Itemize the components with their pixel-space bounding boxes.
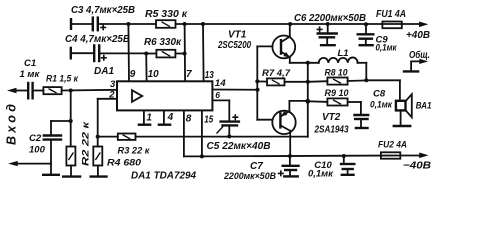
resistor R5 330k bbox=[145, 9, 188, 28]
ground (C8) bbox=[356, 127, 368, 129]
capacitor C2 bbox=[29, 133, 61, 164]
capacitor C9 bbox=[358, 24, 398, 53]
wire C4 to node 10 bbox=[71, 52, 146, 54]
wire input arrow (signal) bbox=[7, 88, 27, 93]
pin number 15 bbox=[204, 115, 213, 126]
node F (C9 top) bbox=[364, 22, 368, 26]
svg-text:DA1: DA1 bbox=[94, 66, 114, 77]
svg-text:6: 6 bbox=[215, 90, 220, 100]
svg-text:−40В: −40В bbox=[403, 161, 431, 172]
pin number 3 bbox=[110, 79, 116, 90]
pin number 13 bbox=[205, 70, 214, 81]
wire pin7 vertical bbox=[184, 24, 187, 81]
wire -40V arrow bbox=[403, 153, 431, 172]
node S (L1/R8 to output) bbox=[364, 78, 368, 82]
svg-text:2SC5200: 2SC5200 bbox=[217, 40, 251, 51]
svg-text:3: 3 bbox=[110, 79, 116, 90]
svg-text:7: 7 bbox=[186, 69, 192, 80]
wire +40V arrow bbox=[406, 22, 430, 42]
node Q (R7/R8 junction) bbox=[306, 80, 310, 84]
pin number 14 bbox=[215, 78, 227, 89]
svg-text:R5 330 к: R5 330 к bbox=[145, 9, 188, 20]
pin number 6 bbox=[215, 90, 220, 100]
pin number 4 bbox=[167, 112, 174, 123]
pin 4 ground bbox=[159, 110, 170, 124]
svg-text:0,1мк: 0,1мк bbox=[376, 42, 398, 53]
svg-text:Общ.: Общ. bbox=[409, 49, 430, 61]
ground (C7) bbox=[284, 175, 297, 177]
capacitor C8 (Zobel) bbox=[355, 88, 394, 127]
resistor R9 10 bbox=[308, 88, 361, 106]
svg-text:8: 8 bbox=[186, 114, 192, 125]
node A (pin9/C3/R5 junction) bbox=[126, 22, 130, 26]
svg-text:2SА1943: 2SА1943 bbox=[314, 125, 349, 136]
pin number 8 bbox=[186, 114, 192, 125]
capacitor C6 bbox=[294, 13, 366, 44]
wire pin8 vertical bbox=[183, 110, 185, 156]
node G (pin10/C4/R6 junction) bbox=[144, 52, 148, 56]
node R (VT2 emitter/R9 junction) bbox=[305, 99, 310, 104]
wire pin2 to feedback node bbox=[98, 99, 117, 137]
node C (pin13 top) bbox=[201, 22, 205, 26]
wire C1 to R1 bbox=[34, 90, 44, 92]
wire pin8 to pin15 jog bbox=[184, 155, 202, 157]
wire VT1 emitter to L1 bbox=[290, 57, 319, 63]
ground (C6) bbox=[321, 44, 335, 46]
svg-text:FU1 4А: FU1 4А bbox=[376, 9, 406, 20]
transistor VT1 2SC5200 bbox=[217, 30, 295, 59]
pin number 2 bbox=[108, 90, 115, 101]
svg-text:R4 680: R4 680 bbox=[107, 157, 142, 168]
svg-text:C2: C2 bbox=[29, 133, 42, 144]
label Вход bbox=[5, 104, 19, 145]
wire node J to C2 bbox=[51, 121, 71, 135]
svg-text:R2 22 к: R2 22 к bbox=[81, 120, 92, 166]
svg-text:0,1мк: 0,1мк bbox=[308, 169, 334, 180]
common terminal (Общ.) bbox=[404, 49, 430, 71]
svg-text:C6 2200мк×50В: C6 2200мк×50В bbox=[294, 13, 366, 24]
node I (R1/R2 junction) bbox=[69, 89, 73, 93]
resistor R8 10 bbox=[308, 67, 367, 84]
node D (VT1 collector) bbox=[288, 22, 292, 26]
ground (C10) bbox=[342, 174, 354, 176]
svg-text:R1 1,5 к: R1 1,5 к bbox=[46, 74, 79, 85]
svg-text:10: 10 bbox=[148, 69, 159, 80]
node U (C10 to rail) bbox=[342, 154, 346, 158]
wire VT2 base bbox=[257, 119, 272, 121]
svg-text:9: 9 bbox=[130, 69, 136, 80]
svg-text:14: 14 bbox=[215, 78, 227, 89]
capacitor C7 bbox=[223, 156, 298, 182]
svg-text:L1: L1 bbox=[338, 48, 349, 59]
ground terminal bar (C4 left) bbox=[70, 48, 72, 58]
svg-text:R7 4,7: R7 4,7 bbox=[262, 68, 291, 79]
resistor R7 4,7 bbox=[257, 68, 308, 85]
ground (BA1) bbox=[394, 125, 410, 127]
wire input arrow (ground side) bbox=[8, 161, 51, 166]
capacitor C10 bbox=[308, 156, 354, 180]
resistor R4 680 bbox=[93, 137, 141, 169]
fuse FU1 bbox=[376, 9, 406, 28]
svg-text:R8 10: R8 10 bbox=[325, 67, 349, 78]
svg-text:13: 13 bbox=[205, 70, 214, 81]
resistor R1 1,5k bbox=[43, 74, 79, 95]
node K (pin2/R3/R4 junction) bbox=[96, 135, 100, 139]
transistor VT2 2SA1943 bbox=[272, 111, 349, 136]
label DA1 TDA7294 bbox=[131, 170, 196, 182]
node H (R6 to pin7 vertical) bbox=[183, 52, 187, 56]
capacitor C1 bbox=[20, 58, 41, 98]
wire node I down to R2 bbox=[70, 91, 72, 147]
svg-text:R3 22 к: R3 22 к bbox=[118, 146, 151, 157]
svg-text:ВА1: ВА1 bbox=[416, 101, 432, 112]
op-amp DA1 TDA7294 body bbox=[94, 66, 212, 110]
fuse FU2 bbox=[378, 140, 407, 159]
svg-text:1 мк: 1 мк bbox=[20, 69, 41, 80]
wire pin15 vertical bbox=[201, 110, 203, 156]
pin number 10 bbox=[148, 69, 159, 80]
svg-text:FU2 4А: FU2 4А bbox=[378, 140, 407, 151]
svg-text:C5 22мк×40В: C5 22мк×40В bbox=[207, 141, 271, 152]
svg-text:C3 4,7мк×25В: C3 4,7мк×25В bbox=[71, 5, 135, 16]
capacitor C5 bbox=[207, 114, 271, 152]
svg-text:0,1мк: 0,1мк bbox=[370, 100, 393, 111]
node N (R7 left) bbox=[255, 79, 259, 83]
svg-text:100: 100 bbox=[29, 145, 46, 156]
wire -40V rail bbox=[202, 155, 420, 158]
capacitor C3 bbox=[71, 5, 135, 31]
resistor R6 330k bbox=[144, 37, 182, 57]
wire node G to R6 bbox=[146, 53, 156, 55]
wire VT1 collector bbox=[289, 24, 291, 37]
wire feedback line to output bus bbox=[136, 101, 308, 137]
capacitor C4 bbox=[65, 34, 130, 61]
wire R6 to pin7 line bbox=[175, 53, 184, 55]
wire pin13 vertical bbox=[202, 24, 205, 81]
svg-text:С8: С8 bbox=[373, 88, 386, 99]
node L (pin15 to -40V rail) bbox=[200, 154, 204, 158]
pin number 9 bbox=[130, 69, 136, 80]
wire output bus vertical bbox=[307, 63, 309, 102]
resistor R2 22k bbox=[66, 120, 91, 166]
node J (C2 branch) bbox=[69, 119, 73, 123]
svg-text:2200мк×50В: 2200мк×50В bbox=[223, 171, 276, 182]
wire pin6 bootstrap bbox=[212, 100, 229, 120]
ground terminal bar (C3 left) bbox=[70, 19, 72, 29]
wire node A to R5 bbox=[128, 23, 156, 25]
pin number 1 bbox=[146, 112, 152, 123]
wire base bus vertical bbox=[256, 46, 258, 119]
loudspeaker BA1 bbox=[396, 94, 432, 125]
wire pin14 output bbox=[212, 89, 257, 91]
node O (C5 to feedback line) bbox=[227, 134, 231, 138]
node M (pin14 to base bus) bbox=[256, 88, 260, 92]
svg-text:R9 10: R9 10 bbox=[325, 88, 350, 99]
inductor L1 bbox=[319, 48, 367, 81]
wire R5 to +40V rail bbox=[176, 23, 421, 25]
svg-text:+40В: +40В bbox=[406, 30, 430, 41]
svg-text:DA1 TDA7294: DA1 TDA7294 bbox=[131, 170, 196, 182]
wire R1 to pin3 bbox=[62, 89, 117, 92]
pin 1 ground bbox=[139, 110, 150, 124]
node T (C7 to rail) bbox=[288, 154, 292, 158]
svg-text:C1: C1 bbox=[24, 58, 36, 69]
node P (emitter line to output bus) bbox=[306, 61, 310, 65]
svg-text:VT1: VT1 bbox=[228, 30, 247, 41]
svg-text:1: 1 bbox=[146, 112, 152, 123]
svg-text:4: 4 bbox=[167, 112, 174, 123]
wire C3 to node 9 bbox=[72, 23, 129, 25]
wire pin10 vertical bbox=[145, 54, 147, 82]
svg-text:C4 4,7мк×25В: C4 4,7мк×25В bbox=[65, 34, 130, 45]
wire VT2 collector to -40V rail bbox=[289, 131, 291, 156]
wire VT1 base bbox=[257, 45, 272, 47]
ground (input) bbox=[43, 164, 59, 175]
svg-text:R6 330к: R6 330к bbox=[144, 37, 182, 48]
wire VT2 emitter to output bus bbox=[289, 101, 307, 111]
ground (R4) bbox=[91, 166, 107, 177]
pin number 7 bbox=[186, 69, 192, 80]
wire output to speaker bbox=[366, 80, 400, 100]
node B (pin7 top) bbox=[183, 22, 187, 26]
svg-text:15: 15 bbox=[204, 115, 213, 126]
wire pin9 vertical bbox=[127, 24, 130, 81]
svg-text:VT2: VT2 bbox=[322, 112, 341, 123]
ground (C9) bbox=[360, 44, 373, 46]
ground (R2) bbox=[63, 166, 80, 177]
node E (C6 top) bbox=[326, 22, 330, 26]
resistor R3 22k bbox=[98, 134, 151, 157]
